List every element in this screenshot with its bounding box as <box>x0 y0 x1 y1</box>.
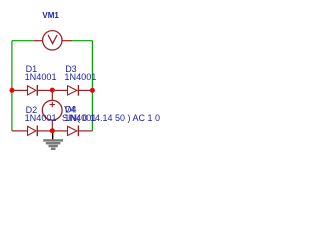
node junction ground <box>50 128 55 133</box>
svg-text:VM1: VM1 <box>42 11 59 20</box>
wire: bottom row segment D4-to-right <box>78 130 92 132</box>
svg-text:1N4001: 1N4001 <box>25 72 57 82</box>
wire: middle row segment D1-to-node <box>37 89 52 91</box>
svg-text:1N4001: 1N4001 <box>64 72 96 82</box>
diode D1 <box>28 85 38 96</box>
wire: top-right horizontal green <box>72 40 92 42</box>
node junction left-mid <box>10 88 15 93</box>
wire: right vertical green <box>91 41 93 131</box>
node junction right-mid <box>90 88 95 93</box>
wire: middle row segment node-to-D3 <box>52 89 67 91</box>
wire: VM1 left lead <box>34 40 43 42</box>
diode D2 <box>28 126 38 137</box>
wire: middle row segment left <box>12 89 28 91</box>
wire: bottom row segment D2-to-node <box>37 130 52 132</box>
svg-text:1N4001: 1N4001 <box>25 113 57 123</box>
wire: bottom row segment node-to-D4 <box>52 130 67 132</box>
wire: top-left horizontal green <box>12 40 34 42</box>
node junction source-top <box>50 88 55 93</box>
svg-text:SIN( 0 14.14 50 ) AC 1 0: SIN( 0 14.14 50 ) AC 1 0 <box>62 113 160 123</box>
wire: VM1 right lead <box>62 40 72 42</box>
wire: left vertical green <box>11 41 13 131</box>
ground <box>43 131 63 150</box>
voltmeter VM1 <box>43 31 62 50</box>
source V4 <box>42 90 62 130</box>
diode D4 <box>68 126 79 137</box>
wire: middle row segment D3-to-right <box>78 89 92 91</box>
wire: bottom row segment left <box>12 130 28 132</box>
diode D3 <box>68 85 79 96</box>
